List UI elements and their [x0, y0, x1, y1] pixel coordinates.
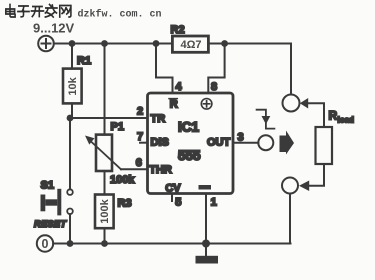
- 网: [60, 6, 71, 18]
- node junction R3 bottom: [101, 240, 108, 247]
- svg-text:load: load: [338, 116, 355, 125]
- pin 5 stub: [171, 195, 173, 202]
- svg-text:7: 7: [137, 131, 143, 143]
- pin 7 stub: [140, 142, 148, 144]
- wire bottom rail: [53, 243, 290, 245]
- terminal bottom output circle: [282, 178, 298, 194]
- svg-text:R: R: [170, 99, 178, 111]
- wire top rail left segment: [54, 43, 173, 45]
- resistor R3 100k: [95, 195, 114, 229]
- wire R1 top: [71, 44, 73, 69]
- svg-text:R3: R3: [118, 198, 132, 210]
- svg-text:0: 0: [42, 237, 49, 251]
- terminal top output circle: [283, 95, 300, 112]
- svg-text:8: 8: [211, 81, 217, 93]
- svg-text:6: 6: [136, 157, 142, 169]
- svg-text:4: 4: [176, 81, 183, 93]
- header site name CJK 电子开发网 (hand-drawn strokes): [6, 5, 71, 18]
- wire pin4 branch: [156, 44, 173, 94]
- IC pin +supply circle: [201, 99, 212, 110]
- node junction pin1/ground: [202, 240, 210, 248]
- svg-text:100k: 100k: [110, 174, 135, 186]
- IC internal pin1 bar: [199, 185, 212, 190]
- big output arrow: [280, 131, 295, 155]
- svg-text:100k: 100k: [99, 198, 111, 223]
- potentiometer P1 body: [96, 135, 112, 171]
- wire pin3 OUT: [234, 142, 258, 144]
- svg-text:555: 555: [178, 148, 201, 163]
- resistor R1 10k: [63, 69, 82, 104]
- wire P1 to R3: [104, 171, 106, 195]
- node junction pin8 branch: [221, 40, 228, 47]
- wire bottom circle to rail: [289, 194, 292, 244]
- resistor R2 4Ω7: [172, 36, 208, 52]
- svg-text:DIS: DIS: [151, 136, 169, 148]
- terminal 0 (ground supply): [37, 235, 53, 251]
- svg-text:R: R: [329, 109, 338, 123]
- node junction pin4 branch: [153, 40, 160, 47]
- wire S1 bottom: [69, 214, 71, 243]
- potentiometer P1 wiper arrow: [91, 142, 121, 170]
- wire top plug to Rload: [308, 103, 324, 127]
- resistor R load: [316, 127, 333, 164]
- svg-text:P1: P1: [111, 121, 124, 133]
- switch S1 push button: [67, 189, 73, 195]
- 子: [18, 6, 29, 17]
- wire Rload bottom to plug: [309, 164, 324, 186]
- plug arrow bottom: [299, 181, 309, 192]
- wire P1 drop from rail: [104, 44, 106, 135]
- wire R1 bottom to TR node: [71, 103, 73, 118]
- wire TR node horizontal to pin2: [70, 117, 148, 119]
- svg-text:9...12V: 9...12V: [33, 21, 75, 36]
- svg-text:RESET: RESET: [34, 219, 67, 229]
- op IC1 555 box: [148, 93, 234, 194]
- svg-text:CV: CV: [165, 182, 181, 194]
- svg-text:TR: TR: [151, 113, 166, 125]
- ground symbol: [205, 244, 207, 257]
- svg-text:OUT: OUT: [207, 136, 231, 148]
- 发: [45, 5, 57, 18]
- wire top rail right segment: [208, 43, 291, 45]
- node junction R1: [69, 40, 76, 47]
- svg-text:5: 5: [175, 197, 181, 209]
- svg-text:4Ω7: 4Ω7: [181, 39, 202, 51]
- node junction P1: [101, 40, 108, 47]
- svg-text:R1: R1: [77, 55, 91, 67]
- plug arrow top: [300, 98, 308, 109]
- svg-text:THR: THR: [149, 164, 172, 176]
- svg-text:IC1: IC1: [178, 119, 200, 134]
- 开: [31, 7, 43, 17]
- wire to top output terminal: [290, 44, 292, 95]
- falling edge symbol: [257, 110, 275, 129]
- terminal + (positive supply): [38, 36, 54, 52]
- wire pin8 branch: [208, 44, 224, 94]
- svg-text:1: 1: [211, 197, 217, 209]
- svg-text:10k: 10k: [67, 76, 79, 95]
- wire S1 top: [69, 118, 71, 189]
- node junction S1 bottom: [67, 240, 74, 247]
- svg-text:dzkfw. com. cn: dzkfw. com. cn: [78, 9, 162, 21]
- node junction TR/S1: [67, 115, 74, 122]
- wire pin1 to rail: [205, 194, 207, 244]
- svg-text:R2: R2: [171, 24, 185, 36]
- svg-text:2: 2: [137, 106, 143, 118]
- svg-text:S1: S1: [41, 180, 54, 192]
- wire R3 bottom: [104, 228, 106, 243]
- 电: [6, 5, 15, 18]
- wire THR from wiper to pin6: [121, 168, 148, 170]
- terminal OUT circle: [258, 135, 273, 150]
